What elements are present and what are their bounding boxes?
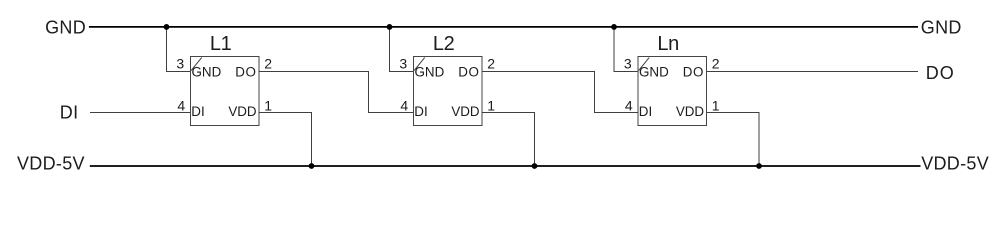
IC U1 pin-1 corner marker (diagonal) <box>191 58 202 71</box>
svg-text:2: 2 <box>487 55 495 71</box>
junction dot GND bus / U1 pin 3 <box>164 24 170 30</box>
IC U3 (Ln) body <box>638 57 707 126</box>
IC U3 pin-1 corner marker (diagonal) <box>639 58 650 71</box>
svg-text:DO: DO <box>458 65 479 80</box>
wire GND bus (top horizontal net) <box>89 26 918 28</box>
wire U2 pin 2 (DO) to U3 pin 4 (DI) <box>482 72 638 113</box>
svg-text:3: 3 <box>624 55 632 71</box>
wire U3 pin 1 (VDD) to VDD-5V bus <box>707 113 760 167</box>
svg-text:DI: DI <box>414 104 427 119</box>
junction dot GND bus / U3 pin 3 <box>611 24 617 30</box>
svg-text:DO: DO <box>683 65 704 80</box>
svg-text:3: 3 <box>399 55 407 71</box>
svg-text:4: 4 <box>400 97 408 113</box>
svg-text:GND: GND <box>639 65 669 80</box>
svg-text:VDD: VDD <box>228 104 257 119</box>
svg-text:VDD-5V: VDD-5V <box>921 154 989 174</box>
wire U1 pin 1 (VDD) to VDD-5V bus <box>259 113 312 167</box>
IC U2 (L2) body <box>414 57 483 126</box>
wire U2 pin 3 to GND bus <box>390 27 414 72</box>
wire U2 pin 1 (VDD) to VDD-5V bus <box>482 113 535 167</box>
svg-text:4: 4 <box>625 97 633 113</box>
svg-text:L1: L1 <box>210 33 232 55</box>
svg-text:GND: GND <box>45 17 86 37</box>
svg-text:DO: DO <box>926 63 955 83</box>
svg-text:L2: L2 <box>433 33 455 55</box>
wire U1 pin 3 to GND bus <box>167 27 191 72</box>
svg-text:DI: DI <box>639 104 652 119</box>
svg-text:GND: GND <box>192 65 222 80</box>
svg-text:2: 2 <box>712 55 720 71</box>
svg-text:VDD: VDD <box>451 104 480 119</box>
svg-text:VDD: VDD <box>676 104 705 119</box>
IC U2 pin-1 corner marker (diagonal) <box>414 58 425 71</box>
junction dot VDD-5V bus / U2 pin 1 <box>532 163 538 169</box>
svg-text:1: 1 <box>264 97 272 113</box>
wire U3 pin 2 (DO) to DO output <box>707 71 919 73</box>
svg-text:GND: GND <box>921 17 962 37</box>
wire U3 pin 3 to GND bus <box>614 27 638 72</box>
svg-text:Ln: Ln <box>657 33 679 55</box>
wire VDD-5V bus (bottom horizontal net) <box>90 165 921 167</box>
junction dot GND bus / U2 pin 3 <box>387 24 393 30</box>
wire U1 pin 2 (DO) to U2 pin 4 (DI) <box>259 72 414 113</box>
svg-text:2: 2 <box>264 55 272 71</box>
svg-text:DO: DO <box>235 65 256 80</box>
junction dot VDD-5V bus / U3 pin 1 <box>756 163 762 169</box>
svg-text:4: 4 <box>177 97 185 113</box>
svg-text:VDD-5V: VDD-5V <box>17 153 85 173</box>
svg-text:GND: GND <box>415 65 445 80</box>
svg-text:DI: DI <box>191 104 204 119</box>
svg-text:DI: DI <box>60 103 79 123</box>
svg-text:1: 1 <box>487 97 495 113</box>
svg-text:1: 1 <box>712 97 720 113</box>
IC U1 (L1) body <box>191 57 260 126</box>
wire DI input to L1 pin 4 <box>90 112 191 114</box>
svg-text:3: 3 <box>176 55 184 71</box>
junction dot VDD-5V bus / U1 pin 1 <box>309 163 315 169</box>
